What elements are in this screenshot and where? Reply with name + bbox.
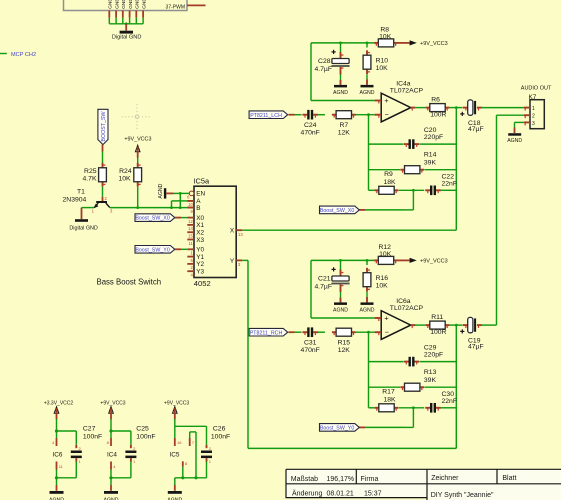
capacitor C21 4.7µF	[314, 260, 349, 290]
svg-text:1: 1	[79, 459, 82, 464]
svg-text:IC6: IC6	[53, 451, 63, 458]
svg-text:GND: GND	[108, 0, 114, 9]
svg-text:TL072ACP: TL072ACP	[390, 88, 424, 95]
power +9V_VCC3 (above R24)	[124, 137, 151, 158]
svg-text:DIY Synth "Jeannie": DIY Synth "Jeannie"	[431, 492, 494, 499]
wire Y net (IC5a Y to feedback)	[242, 260, 456, 448]
svg-text:AGND: AGND	[333, 90, 348, 96]
svg-text:R25: R25	[84, 168, 97, 175]
wire opamp out	[415, 107, 425, 109]
svg-text:Bass Boost Switch: Bass Boost Switch	[97, 278, 162, 287]
svg-text:C27: C27	[83, 426, 96, 433]
svg-text:18K: 18K	[383, 179, 396, 186]
svg-text:R6: R6	[431, 97, 440, 104]
wire cap to R	[318, 114, 325, 116]
pin 37-PWM on MCU	[166, 4, 206, 10]
wire feedback left vertical	[368, 332, 370, 408]
svg-text:7: 7	[192, 440, 195, 445]
ground Digital GND (T1)	[69, 219, 98, 231]
resistor R10 10K	[363, 43, 388, 74]
svg-text:8: 8	[107, 440, 110, 445]
svg-text:2: 2	[209, 446, 212, 451]
svg-text:C28: C28	[318, 58, 331, 65]
wire feedback left vertical	[368, 115, 370, 191]
wire C18 to K7 pin1	[481, 107, 524, 109]
title block table	[286, 469, 561, 500]
capacitor C29 220pF	[369, 345, 457, 367]
svg-text:Maßstab: Maßstab	[291, 476, 318, 483]
resistor R16 10K	[363, 260, 388, 291]
svg-text:R15: R15	[338, 339, 351, 346]
svg-text:+9V_VCC3: +9V_VCC3	[100, 400, 125, 406]
wire R25 to base	[102, 187, 104, 201]
svg-text:GND: GND	[135, 0, 141, 9]
svg-text:PT8211_RCH: PT8211_RCH	[250, 330, 283, 336]
svg-text:16: 16	[177, 440, 182, 445]
svg-text:100nF: 100nF	[83, 433, 102, 440]
svg-text:MCP CH2: MCP CH2	[11, 52, 36, 58]
svg-text:Y2: Y2	[196, 261, 204, 268]
resistor R24 10K	[119, 163, 142, 187]
resistor R14 39K	[369, 152, 457, 174]
svg-text:Y0: Y0	[196, 247, 204, 254]
svg-text:Firma: Firma	[361, 476, 379, 483]
ground AGND (R16)	[360, 292, 375, 314]
wire X net (IC5a X to feedback)	[242, 229, 456, 231]
svg-text:2: 2	[532, 114, 535, 120]
transistor T1 2N3904	[63, 188, 114, 213]
wire BOOST_SW to R25	[102, 145, 104, 164]
svg-text:+9V_VCC3: +9V_VCC3	[420, 259, 448, 265]
op-amp IC6a TL072ACP	[375, 298, 424, 340]
capacitor C19 47µF	[460, 317, 483, 350]
svg-text:AUDIO OUT: AUDIO OUT	[521, 86, 552, 92]
svg-text:Digital GND: Digital GND	[69, 225, 98, 231]
resistor R11 100R	[426, 314, 450, 336]
svg-text:GND: GND	[121, 0, 127, 9]
svg-text:R17: R17	[382, 389, 395, 396]
svg-text:22nF: 22nF	[442, 181, 458, 188]
svg-text:37-PWM: 37-PWM	[166, 4, 185, 10]
svg-text:4: 4	[190, 273, 193, 278]
wire +9V rail	[311, 259, 374, 262]
IC Teensy/MCU box (top, partially cut)	[64, 0, 188, 11]
ground Digital GND (MCU)	[112, 31, 142, 41]
svg-text:Boost_SW_X0: Boost_SW_X0	[135, 216, 170, 222]
wire + input riser	[311, 260, 375, 318]
resistor R7 12K	[332, 111, 356, 137]
svg-text:C24: C24	[304, 122, 317, 129]
svg-text:+: +	[384, 314, 388, 323]
wire feedback right vertical	[455, 325, 457, 448]
svg-text:15: 15	[188, 234, 193, 239]
power block IC6 +3.3V_VCC2 / capacitor C27 100nF	[44, 400, 102, 500]
svg-text:10K: 10K	[379, 33, 392, 40]
svg-text:IC4a: IC4a	[396, 80, 411, 87]
svg-text:T1: T1	[77, 188, 85, 195]
svg-text:Zeichner: Zeichner	[431, 475, 459, 482]
svg-text:IC5: IC5	[170, 451, 180, 458]
connector K7 AUDIO OUT	[521, 86, 552, 129]
svg-text:39K: 39K	[424, 159, 437, 166]
svg-text:10K: 10K	[379, 251, 392, 258]
svg-text:X0: X0	[196, 215, 204, 222]
resistor R25 4.7K	[83, 163, 107, 187]
net flag Boost_SW_Y0 (left)	[135, 246, 187, 254]
svg-text:100R: 100R	[430, 112, 446, 119]
svg-text:3: 3	[532, 121, 535, 127]
node junction A-drop	[170, 201, 194, 209]
svg-text:3: 3	[238, 262, 241, 267]
wire GND bus under MCU	[109, 22, 143, 25]
svg-text:47µF: 47µF	[468, 126, 484, 133]
resistor R15 12K	[332, 328, 356, 354]
svg-text:100nF: 100nF	[136, 433, 155, 440]
svg-text:22nF: 22nF	[442, 398, 458, 405]
wire feedback right vertical	[455, 108, 457, 231]
svg-text:1: 1	[190, 251, 193, 256]
svg-text:X: X	[230, 228, 235, 235]
svg-text:TL072ACP: TL072ACP	[390, 305, 424, 312]
svg-text:C21: C21	[318, 276, 331, 283]
wire cap to R	[318, 331, 325, 333]
capacitor C31 470nF	[301, 327, 320, 353]
svg-text:AGND: AGND	[158, 183, 164, 198]
svg-text:PT8211_LCH: PT8211_LCH	[250, 113, 282, 119]
wire +9V rail	[311, 42, 374, 45]
resistor R17 18K	[369, 389, 425, 412]
svg-text:10K: 10K	[119, 176, 132, 183]
svg-text:+: +	[384, 96, 388, 105]
svg-text:AGND: AGND	[360, 90, 375, 96]
capacitor C28 4.7µF	[314, 43, 349, 73]
resistor R13 39K	[369, 369, 457, 391]
svg-text:+3.3V_VCC2: +3.3V_VCC2	[44, 400, 74, 406]
svg-text:R12: R12	[378, 244, 391, 251]
wire + input riser	[311, 43, 375, 101]
svg-text:10: 10	[188, 202, 193, 207]
svg-text:18K: 18K	[383, 396, 396, 403]
svg-text:4: 4	[52, 440, 55, 445]
svg-text:12K: 12K	[338, 129, 351, 136]
svg-text:4.7µF: 4.7µF	[314, 66, 332, 73]
op-amp IC4a TL072ACP	[375, 80, 424, 122]
wire R out to cap	[449, 106, 462, 109]
svg-text:GND: GND	[141, 0, 147, 9]
svg-text:R24: R24	[119, 168, 132, 175]
svg-text:X1: X1	[196, 222, 204, 229]
svg-text:Digital GND: Digital GND	[112, 34, 142, 40]
svg-text:470nF: 470nF	[301, 347, 320, 354]
net label MCP CH2	[0, 52, 36, 58]
svg-text:2N3904: 2N3904	[63, 197, 87, 204]
svg-text:2: 2	[190, 265, 193, 270]
net flag BOOST_SW (vertical)	[98, 109, 108, 144]
power +9V_VCC3 (R8)	[398, 40, 448, 47]
svg-text:R11: R11	[431, 314, 443, 321]
svg-text:AGND: AGND	[333, 308, 348, 314]
svg-text:13: 13	[238, 232, 243, 237]
resistor R8 10K	[374, 26, 398, 47]
capacitor C30 22nF	[425, 391, 457, 412]
svg-text:100nF: 100nF	[211, 433, 230, 440]
svg-text:X2: X2	[196, 230, 204, 237]
svg-text:10K: 10K	[376, 65, 389, 72]
svg-text:AGND: AGND	[507, 138, 522, 144]
svg-text:X3: X3	[196, 237, 204, 244]
svg-text:C31: C31	[304, 339, 317, 346]
capacitor C18 47µF	[460, 100, 483, 133]
power +9V_VCC3 (R12)	[398, 258, 448, 265]
svg-text:Boost_SW_Y0: Boost_SW_Y0	[135, 247, 170, 253]
svg-text:47µF: 47µF	[468, 344, 484, 351]
svg-text:IC6a: IC6a	[396, 298, 411, 305]
ground AGND (IC5a EN)	[158, 183, 190, 198]
svg-text:2: 2	[105, 196, 108, 201]
svg-text:R8: R8	[380, 26, 389, 33]
svg-text:BOOST_SW: BOOST_SW	[101, 111, 107, 141]
svg-text:R9: R9	[384, 171, 393, 178]
svg-text:12K: 12K	[338, 347, 351, 354]
ground AGND (K7 pin3)	[507, 122, 524, 144]
text Bass Boost Switch	[97, 278, 162, 287]
svg-text:1: 1	[209, 459, 212, 464]
power block IC5 +9V_VCC3 / capacitor C26 100nF	[164, 400, 230, 500]
svg-text:Y1: Y1	[196, 254, 204, 261]
svg-text:R14: R14	[424, 152, 437, 159]
svg-text:39K: 39K	[424, 377, 437, 384]
svg-text:IC4: IC4	[107, 451, 117, 458]
svg-text:14: 14	[188, 226, 193, 231]
svg-text:11: 11	[188, 241, 193, 246]
wire emitter to ground	[82, 208, 95, 220]
net flag Boost_SW_Y0 (right)	[320, 406, 415, 431]
node junction EN-drop	[179, 192, 182, 209]
dotted origin crosshair	[122, 104, 153, 131]
net flag Boost_SW_X0 (left)	[135, 214, 187, 222]
svg-text:+9V_VCC3: +9V_VCC3	[164, 400, 189, 406]
svg-text:12: 12	[188, 219, 193, 224]
svg-text:Blatt: Blatt	[502, 475, 516, 482]
wire K7 pin2 to lower out	[481, 115, 524, 325]
svg-text:08.01.21: 08.01.21	[327, 490, 354, 497]
wire +9V to R24	[137, 158, 139, 164]
svg-text:R13: R13	[424, 369, 437, 376]
svg-text:AGND: AGND	[360, 308, 375, 314]
svg-text:470nF: 470nF	[301, 129, 320, 136]
ground AGND (C21)	[333, 289, 348, 314]
wire R to - input	[356, 331, 375, 334]
svg-text:R10: R10	[376, 57, 389, 64]
ground AGND (C28)	[333, 71, 348, 96]
wire R24 to collector node	[136, 187, 139, 209]
svg-text:C26: C26	[213, 426, 226, 433]
svg-text:2: 2	[79, 446, 82, 451]
wire R to - input	[356, 113, 375, 116]
svg-text:GND: GND	[128, 0, 134, 9]
svg-text:−: −	[385, 327, 389, 336]
power block IC4 +9V_VCC3 / capacitor C25 100nF	[100, 400, 155, 500]
resistor R12 10K	[374, 244, 398, 265]
svg-text:C25: C25	[136, 426, 149, 433]
svg-text:15:37: 15:37	[364, 490, 382, 497]
svg-text:100R: 100R	[430, 329, 446, 336]
svg-text:Y3: Y3	[196, 269, 204, 276]
svg-text:8: 8	[185, 461, 188, 466]
net flag Boost_SW_X0 (right)	[320, 189, 415, 214]
wire collector to IC5a B	[110, 207, 194, 209]
op IC5a 4052 box	[194, 177, 237, 288]
svg-text:4052: 4052	[194, 279, 211, 288]
capacitor C20 220pF	[369, 127, 457, 149]
svg-text:Änderung: Änderung	[292, 489, 322, 497]
svg-text:4: 4	[113, 464, 116, 469]
resistor R6 100R	[426, 97, 450, 119]
svg-text:11: 11	[59, 464, 64, 469]
MCU GND pins with labels	[108, 0, 148, 24]
net flag PT8211_LCH	[249, 111, 301, 119]
svg-text:Y: Y	[230, 258, 235, 265]
svg-text:220pF: 220pF	[424, 352, 443, 359]
svg-text:GND: GND	[114, 0, 120, 9]
net flag PT8211_RCH	[249, 328, 301, 336]
svg-text:1: 1	[532, 106, 535, 112]
wire R out to cap	[449, 324, 462, 327]
svg-text:220pF: 220pF	[424, 134, 443, 141]
svg-text:2: 2	[133, 446, 136, 451]
svg-text:B: B	[196, 205, 200, 212]
svg-text:+9V_VCC3: +9V_VCC3	[124, 137, 151, 143]
svg-text:Boost_SW_X0: Boost_SW_X0	[320, 208, 355, 214]
svg-text:R16: R16	[376, 275, 389, 282]
svg-text:9: 9	[190, 209, 193, 214]
svg-text:5: 5	[190, 258, 193, 263]
wire GND bus drop	[125, 24, 127, 31]
svg-text:1: 1	[133, 459, 136, 464]
svg-text:+9V_VCC3: +9V_VCC3	[420, 41, 448, 47]
svg-text:IC5a: IC5a	[194, 177, 211, 186]
capacitor C24 470nF	[301, 110, 320, 136]
IC5a pins	[187, 191, 243, 278]
wire opamp out	[415, 324, 425, 326]
svg-text:R7: R7	[339, 122, 348, 129]
svg-text:4.7K: 4.7K	[83, 176, 97, 183]
capacitor C22 22nF	[425, 174, 457, 195]
resistor R9 18K	[369, 171, 425, 194]
svg-text:196,17%: 196,17%	[327, 476, 355, 483]
ground AGND (R10)	[360, 74, 375, 96]
svg-text:10K: 10K	[376, 283, 389, 290]
svg-text:−: −	[385, 110, 389, 119]
svg-text:Boost_SW_Y0: Boost_SW_Y0	[320, 426, 355, 432]
svg-text:4.7µF: 4.7µF	[314, 283, 332, 290]
svg-text:1: 1	[92, 209, 95, 214]
svg-text:3: 3	[110, 209, 113, 214]
svg-text:EN: EN	[196, 191, 205, 198]
